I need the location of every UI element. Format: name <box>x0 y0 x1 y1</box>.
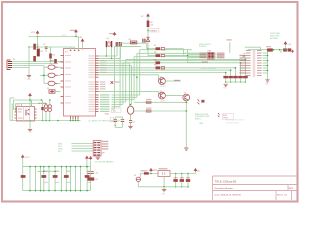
IC1 left pin 2 label <box>65 61 71 62</box>
R9 label <box>266 46 271 47</box>
green net label row 3 <box>100 99 110 100</box>
junction reg out a <box>175 173 177 175</box>
junction bank bot 10 <box>75 190 77 192</box>
IC1 bottom pin 4 wire <box>77 119 79 121</box>
wire bank col 4 <box>43 167 45 191</box>
wire bank col 1 <box>29 167 31 191</box>
header SV1 pin L5 <box>246 60 251 61</box>
IC1 left pin 8 label <box>65 102 71 103</box>
capacitor CR3 <box>186 179 190 182</box>
svg-text:X2: X2 <box>134 175 136 177</box>
wire Q2 base <box>99 74 159 76</box>
net label SV1 7 <box>240 70 247 71</box>
wire below RN1 <box>188 62 201 64</box>
IC1 left pin 7 <box>61 96 64 98</box>
junction row75 <box>43 75 45 77</box>
crystal Q1 <box>106 41 111 47</box>
svg-text:XX XXXX XXXX: XX XXXX XXXX <box>226 123 240 125</box>
junction vcc2 <box>75 36 77 38</box>
wire SV1 right 5 <box>263 62 268 64</box>
IC1 right pin 19 <box>96 101 99 103</box>
wire hook outer <box>9 98 11 121</box>
power symbol VCC2 <box>75 30 78 33</box>
ground G5 <box>128 126 132 128</box>
net label below RN1 <box>202 62 209 63</box>
junction gnd rail x70.5 <box>70 120 72 122</box>
svg-text:Document Number:: Document Number: <box>215 187 234 190</box>
svg-text:T2: T2 <box>160 91 162 93</box>
wire stair row 4 h <box>112 101 126 103</box>
value callout C6 <box>112 108 122 113</box>
svg-text:VCC FROM TARGET: VCC FROM TARGET <box>95 161 115 164</box>
wire rst main <box>147 27 149 56</box>
ground G3 <box>28 130 32 132</box>
wire bus row 67 <box>99 67 236 69</box>
svg-text:VC: VC <box>141 16 144 18</box>
wire X2 down <box>137 182 139 187</box>
junction bank bot 1 <box>29 190 31 192</box>
wire vcc6 <box>195 172 197 173</box>
fuse F2 right stub <box>55 74 58 76</box>
junction gnd rail x78.0 <box>77 120 79 122</box>
diode D6 body <box>130 41 136 44</box>
IC1 right pin 23 label <box>89 111 95 112</box>
wire hook inner <box>11 104 13 121</box>
junction bank top 8 <box>66 166 68 168</box>
svg-text:D2: D2 <box>47 88 49 90</box>
wire aref drop <box>82 43 84 50</box>
capacitor C12 <box>143 39 145 43</box>
wire stair row 2 exit <box>137 52 208 54</box>
svg-text:D6: D6 <box>129 39 131 41</box>
resistor RP5 <box>243 76 248 78</box>
wire ISP 3 <box>72 148 94 150</box>
IC1 left pin 3 <box>61 67 64 69</box>
junction bank top 2 <box>35 166 37 168</box>
power symbol VCC4 <box>21 155 24 158</box>
IC IC3 body <box>17 107 35 122</box>
junction gnd rail x46.0 <box>45 120 47 122</box>
wire L1 bottom <box>45 112 47 121</box>
junction bank bot 2 <box>35 190 37 192</box>
junction dcdc a <box>29 99 31 101</box>
svg-text:VCC: VCC <box>31 32 36 34</box>
wire pin to cap a <box>99 62 130 64</box>
junction bank top 7 <box>61 166 63 168</box>
header SV1 pin L2 <box>246 53 251 54</box>
junction SV1 top <box>267 49 269 51</box>
IC1 right pin 15 label <box>89 91 95 92</box>
IC1 bottom pin 2 <box>72 116 74 119</box>
wire F1 right <box>58 66 61 68</box>
resistor R11 <box>156 61 161 64</box>
net label RESET bracket <box>150 28 159 32</box>
junction L2 top <box>49 99 51 101</box>
header SV1 pin R5 <box>257 60 262 61</box>
wire regcap 3 top <box>187 174 189 180</box>
wire hook outer top <box>10 97 15 99</box>
wire box feed b <box>187 50 189 63</box>
junction pullup bot 3 <box>235 81 237 83</box>
junction gnd rail x30.0 <box>29 120 31 122</box>
wire pin1 jog <box>57 61 59 64</box>
wire SV1 right rail <box>267 50 269 80</box>
power symbol VCC-T <box>89 157 92 160</box>
junction gnd rail x73.0 <box>72 120 74 122</box>
wire xtal1 v <box>105 47 107 56</box>
connector X2 jack <box>136 177 140 181</box>
IC1 left pin 5 <box>61 80 64 82</box>
IC1 right pin 9 label <box>89 74 95 75</box>
IC1 left pin 5 label <box>65 80 71 81</box>
header SV1 pin R6 <box>257 63 262 64</box>
IC3 left pins <box>15 109 17 118</box>
capacitor CB3 <box>64 175 69 178</box>
header SV1 pin L9 <box>246 70 251 71</box>
junction bank top 12 <box>86 166 88 168</box>
wire stair row 2 v <box>136 53 138 97</box>
power symbol VCC-XT <box>113 32 116 35</box>
header SV1 pin R4 <box>257 58 262 59</box>
junction cap top <box>130 104 132 106</box>
IC1 right pin 11 label <box>89 81 95 82</box>
power symbol VCC5 <box>284 42 287 45</box>
wire stair row 1 v <box>139 50 141 95</box>
svg-text:T3: T3 <box>184 93 186 95</box>
no-connect label <box>114 81 120 82</box>
wire RN1 in4 <box>188 57 208 59</box>
wire bank col 6 <box>54 167 56 191</box>
svg-text:AV: AV <box>80 36 83 39</box>
VIN label <box>153 170 157 171</box>
wire vcc2 drop <box>75 34 77 37</box>
resistor R5 <box>54 59 57 63</box>
wire Q2 out <box>165 80 181 82</box>
junction reg out c <box>187 173 189 175</box>
junction pullup top 4 <box>240 62 242 64</box>
wire bank col 5 <box>48 167 50 191</box>
CB2 value marks <box>56 171 60 172</box>
wire SV1 right 4 <box>263 60 268 62</box>
junction reg in <box>150 173 152 175</box>
wire cap feed a <box>129 63 131 106</box>
junction bank bot 3 <box>40 190 42 192</box>
header JP1 body <box>93 141 101 157</box>
IC1 right pin 22 label <box>89 109 95 110</box>
svg-text:C8: C8 <box>114 125 116 127</box>
junction row47 c <box>45 46 47 48</box>
IC1 right pin 4 label <box>89 63 95 64</box>
diode D3 <box>146 101 151 103</box>
junction SV1 r 65.5 <box>267 65 269 67</box>
wire stair row 3 exit <box>134 56 207 58</box>
RN1 element 4 <box>208 57 211 58</box>
junction SV1 r 70.5 <box>267 70 269 72</box>
svg-text:10k: 10k <box>150 25 153 27</box>
green net label row 8 <box>100 111 110 112</box>
wire Q2 base stub <box>158 75 160 81</box>
wire rst row2 <box>148 55 156 57</box>
svg-text:T1: T1 <box>160 76 162 78</box>
junction bank top 4 <box>43 166 45 168</box>
IC1 right pin 14 <box>96 88 99 90</box>
JP1 right label 3 <box>102 146 109 147</box>
wire jog row55 <box>243 56 245 57</box>
header SV1 pin L8 <box>246 68 251 69</box>
power symbol VIN <box>150 169 153 172</box>
header SV1 pin L10 <box>246 73 251 74</box>
svg-text:C10: C10 <box>95 172 98 174</box>
svg-text:VCC: VCC <box>26 157 30 159</box>
IC1 right pin 7 label <box>89 70 95 71</box>
wire xtal2 v <box>111 47 113 58</box>
junction bank top 10 <box>75 166 77 168</box>
IC3 inner text b <box>18 111 22 112</box>
wire RN1 out 1 <box>214 52 216 54</box>
junction pullup top 1 <box>225 72 227 74</box>
wire bank right top <box>86 160 88 167</box>
wire X2 up <box>139 174 141 178</box>
diode D6 mark <box>132 41 136 43</box>
wire pullup col 1 <box>225 73 227 76</box>
svg-text:GND: GND <box>265 84 269 86</box>
wire F2 left <box>44 74 48 76</box>
ground G1 <box>27 76 31 78</box>
net label top col <box>227 39 232 40</box>
junction bank top 1 <box>29 166 31 168</box>
wire SV1 right 6 <box>263 65 268 67</box>
header SV1 pin L11 <box>246 75 251 76</box>
voltage regulator IC2 body <box>158 171 170 177</box>
IC1 left pin 8 <box>61 102 64 104</box>
junction rst2 <box>147 48 149 50</box>
RN1 out label 1 <box>217 53 225 54</box>
svg-text:XXXXXX: XXXXXX <box>199 46 207 48</box>
transistor Q4 <box>183 94 190 101</box>
RN1 out label 2 <box>217 54 225 55</box>
wire stair row 4 exit <box>126 59 246 61</box>
wire F1 left <box>44 66 48 68</box>
wire F3 left <box>44 82 48 84</box>
wire stair row 4 v <box>125 60 127 102</box>
wire ISP 2 <box>72 145 94 147</box>
wire ISP 4 <box>72 150 94 152</box>
svg-text:GND: GND <box>162 194 166 196</box>
net label SV1 3 <box>240 60 247 61</box>
resistor R3 <box>33 56 36 62</box>
junction gnd rail x58.0 <box>57 120 59 122</box>
capacitor C11 polarized <box>87 177 94 180</box>
wire Q3 out <box>165 95 183 97</box>
wire jog row53 <box>244 52 246 54</box>
IC1 right pin 21 <box>96 106 99 108</box>
wire C89 bottom <box>115 126 122 128</box>
wire pullup col 3 lower <box>235 78 237 82</box>
header JP1 rung 6 <box>94 154 97 155</box>
wire regcap 1 top <box>175 174 177 180</box>
capacitor C9 <box>121 120 125 122</box>
junction pullup top 5 <box>245 59 247 61</box>
net label pin row 5 <box>100 65 107 66</box>
junction SV1 r 60.5 <box>267 60 269 62</box>
junction bank top 5 <box>48 166 50 168</box>
wire regcap 3 bot <box>187 182 189 187</box>
VCC-XT label <box>109 33 114 34</box>
junction tr a <box>273 49 275 51</box>
wire bank col 12 <box>86 167 88 191</box>
svg-text:XXXX XXXXXX XXXX: XXXX XXXXXX XXXX <box>226 120 245 122</box>
RN1 element 2 <box>208 54 211 55</box>
wire bank col 2 <box>35 167 37 191</box>
wire pullup col 2 <box>230 70 232 76</box>
net label SV1 5 <box>240 65 247 66</box>
fuse F3 <box>48 81 55 85</box>
Q2 net label <box>174 80 180 81</box>
wire bank col 3 <box>40 167 42 191</box>
load capacitor CL1 <box>116 42 118 47</box>
capacitor C10 <box>87 172 93 174</box>
fuse F1 right stub <box>55 66 58 68</box>
wire stair row 6 v <box>119 43 121 106</box>
header JP1 bottom stub <box>97 156 99 157</box>
green net label row 7 <box>100 108 110 109</box>
wire box feed a <box>183 49 185 55</box>
wire SV1 right 8 <box>263 70 268 72</box>
junction usb b <box>186 110 188 112</box>
resistor RP2 <box>228 76 233 78</box>
wire rst row1 b <box>165 48 184 50</box>
junction bank top 9 <box>70 166 72 168</box>
wire pullup col 4 lower <box>240 78 242 82</box>
wire xtal ext2 <box>112 57 121 59</box>
junction pullup top 3 <box>235 67 237 69</box>
svg-text:REV:: REV: <box>289 188 294 190</box>
IC1 right pin 19 label <box>89 101 95 102</box>
junction pullup bot 5 <box>245 81 247 83</box>
IC1 right pin 20 <box>96 103 99 105</box>
junction bank bot 5 <box>48 190 50 192</box>
wire stub row75 <box>40 75 44 77</box>
junction bank top 3 <box>40 166 42 168</box>
IC1 right pin 11 <box>96 81 99 83</box>
wire Q3 base stub <box>158 91 160 95</box>
junction usb a <box>186 102 188 104</box>
svg-text:R8: R8 <box>154 52 156 54</box>
junction regcap 2 <box>181 186 183 188</box>
IC1 bottom pin 4 <box>77 116 79 119</box>
wire stair row 7 exit <box>115 45 142 47</box>
IC1 bottom pin 3 wire <box>75 119 77 121</box>
header JP1 rung 2 <box>94 145 97 146</box>
IC IC1 body <box>64 49 96 117</box>
power symbol VCC1 <box>36 31 39 34</box>
wire stair row 7 h <box>112 108 115 110</box>
wire stair row 5 exit <box>123 62 241 64</box>
RN1 in label 4 <box>200 57 207 58</box>
wire pullup col 5 lower <box>244 78 246 82</box>
wire vin drop <box>150 172 152 173</box>
IC3 inner text a <box>18 109 23 110</box>
IC1 left pin 1 <box>61 55 64 57</box>
junction SV1 r 55.5 <box>267 55 269 57</box>
RN1 out label 4 <box>217 57 225 58</box>
wire pullup col 1 lower <box>225 78 227 82</box>
resistor RP3 <box>233 76 238 78</box>
wire C89 top <box>115 116 122 118</box>
wire bank col 8 <box>65 167 67 191</box>
wire bank col 7 <box>61 167 63 191</box>
IC1 right pin 10 <box>96 76 99 78</box>
svg-text:C7: C7 <box>133 122 135 124</box>
resistor RP4 <box>238 76 243 78</box>
wire label col drop <box>229 42 231 53</box>
wire SV1 top stub <box>247 49 249 52</box>
connector X1 pins <box>8 62 12 68</box>
IC1 right pin 17 label <box>89 97 95 98</box>
wire dcdc rail2 <box>16 103 47 105</box>
junction bank bot 7 <box>61 190 63 192</box>
transistor Q2 <box>159 78 166 85</box>
diode D4 <box>146 110 151 112</box>
junction rst <box>147 30 149 32</box>
header SV1 body <box>253 50 255 78</box>
header SV1 pin L6 <box>246 63 251 64</box>
net label pin row 8 <box>100 72 107 73</box>
header SV1 pin R11 <box>257 75 262 76</box>
capacitor CB0 <box>21 175 26 178</box>
wire stair row 7 v <box>114 46 116 109</box>
header JP1 rung 1 <box>94 142 97 143</box>
capacitor CB2 <box>53 175 58 178</box>
junction row47 b <box>37 46 39 48</box>
green net label row 5 <box>100 104 110 105</box>
wire top jog <box>245 46 261 48</box>
wire R4 top <box>50 47 52 54</box>
wire bus rail top right <box>248 49 292 51</box>
junction bank top 6 <box>54 166 56 168</box>
wire cl2 v <box>119 47 121 58</box>
wire RN1 out 3 <box>214 55 216 57</box>
wire fuse feed <box>43 66 45 84</box>
RN1 in label 3 <box>200 56 207 57</box>
wire IC3 gnd <box>29 121 31 129</box>
wire SV1 right 2 <box>263 55 268 57</box>
wire C8 up <box>114 117 116 120</box>
load capacitor CL2 <box>120 42 122 47</box>
resistor R4 <box>49 54 52 59</box>
IC1 right pin 4 <box>96 62 99 64</box>
wire bank left <box>22 159 24 191</box>
IC1 top pin stubs <box>70 50 80 52</box>
capacitor C1 <box>45 47 48 49</box>
value callout C8 <box>110 117 114 121</box>
ground G6 <box>224 84 228 86</box>
wire reg out <box>170 173 196 175</box>
junction bank bot 6 <box>54 190 56 192</box>
net label SV1 4 <box>240 62 247 63</box>
junction cl2 <box>111 58 113 60</box>
IC1 right pin 5 label <box>89 65 95 66</box>
junction bank bot 11 <box>80 190 82 192</box>
resistor RP1 <box>223 76 228 78</box>
resistor R10 <box>156 66 161 69</box>
wire bus row 72 <box>99 72 226 74</box>
junction gnd rail x75.5 <box>75 120 77 122</box>
wire reg gnd rail <box>138 186 188 188</box>
wire R4 bottom <box>50 59 52 64</box>
wire C1 stub <box>45 46 47 48</box>
IC1 left pin 2 <box>61 61 64 63</box>
